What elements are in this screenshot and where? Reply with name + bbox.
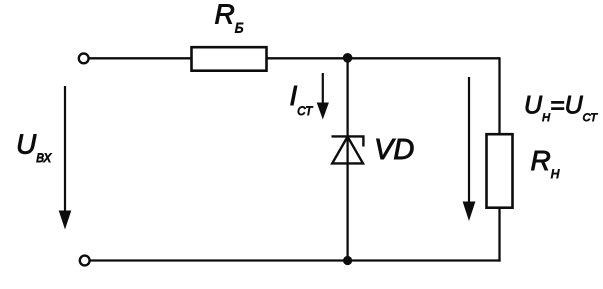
svg-text:VD: VD xyxy=(374,134,414,166)
wire zener branch vertical xyxy=(346,58,348,261)
arrow I_st (stabilizer current) xyxy=(317,73,329,120)
wire right vertical lower xyxy=(498,208,500,262)
wire right vertical upper xyxy=(498,57,500,135)
terminal top-left xyxy=(79,54,89,64)
wire top-left segment xyxy=(89,57,191,59)
terminal bottom-left xyxy=(80,256,90,266)
resistor R_N body xyxy=(487,134,513,208)
node junction top xyxy=(343,53,353,63)
wire top-right segment xyxy=(267,57,500,59)
arrow U_vx (input voltage) xyxy=(59,86,72,230)
resistor R_B body xyxy=(192,47,267,70)
arrow load current (right branch) xyxy=(463,77,476,221)
zener diode VD triangle xyxy=(332,137,363,164)
zener diode VD cathode bar xyxy=(332,136,364,146)
wire bottom xyxy=(90,259,501,261)
node junction bottom xyxy=(343,256,352,265)
